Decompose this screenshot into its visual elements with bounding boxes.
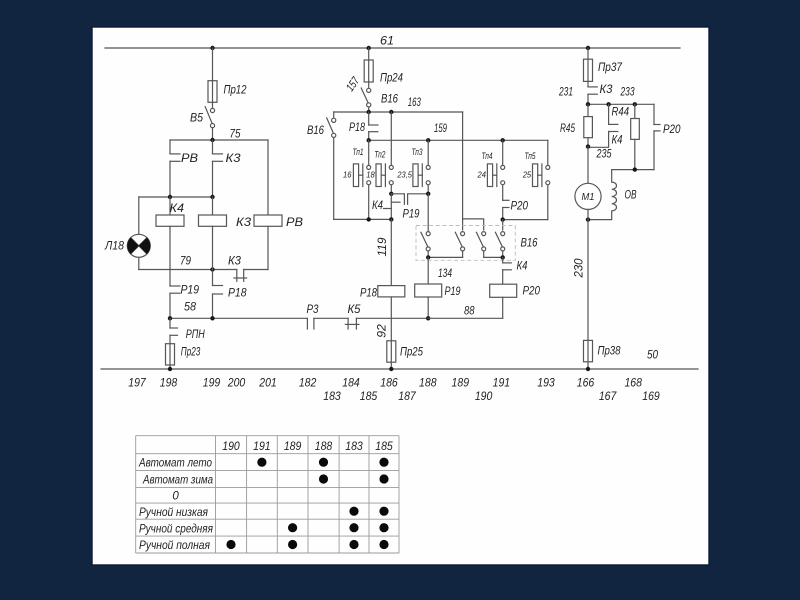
- wire node 119: [375, 219, 392, 285]
- thermal contact Тп1 value 16: [343, 140, 371, 219]
- svg-text:182: 182: [299, 376, 317, 390]
- junction 159c: [501, 138, 505, 142]
- contact К4 right-mid: [503, 257, 528, 284]
- node 61 label: [380, 34, 394, 48]
- svg-text:200: 200: [227, 376, 246, 390]
- svg-text:РВ: РВ: [181, 151, 198, 165]
- svg-text:92: 92: [375, 324, 389, 338]
- wire К3 coil bottom: [212, 226, 214, 269]
- table row labels: [138, 458, 213, 552]
- junction node 235: [586, 144, 590, 148]
- svg-text:К3: К3: [236, 215, 251, 229]
- svg-text:Тп2: Тп2: [374, 150, 385, 161]
- svg-text:186: 186: [380, 376, 398, 390]
- svg-text:К3: К3: [228, 254, 241, 268]
- svg-text:К5: К5: [348, 302, 361, 316]
- wire node 79 lower: [139, 254, 237, 270]
- svg-text:183: 183: [323, 389, 341, 403]
- wire node 134: [428, 257, 452, 284]
- wire node 233: [588, 103, 654, 105]
- svg-text:R45: R45: [560, 121, 575, 135]
- thermal contact Тп2 value 18: [366, 112, 393, 194]
- table dots row Ручной полная: [226, 540, 388, 549]
- svg-text:199: 199: [203, 376, 221, 390]
- coil К3: [199, 197, 252, 229]
- svg-text:Р3: Р3: [307, 302, 319, 316]
- svg-text:61: 61: [380, 34, 394, 48]
- table grid: [136, 436, 399, 553]
- wire РВ coil bottom: [267, 226, 269, 269]
- svg-text:Ручной низкая: Ручной низкая: [139, 507, 208, 519]
- svg-text:Автомат зима: Автомат зима: [142, 474, 213, 486]
- switch SW1: [421, 194, 430, 258]
- contact К3 right: [588, 81, 613, 104]
- svg-text:169: 169: [642, 389, 660, 403]
- wire left to К4 bottom: [334, 218, 392, 220]
- svg-text:79: 79: [180, 254, 191, 268]
- wire 163 branch down: [463, 112, 484, 230]
- contact Р19: [170, 226, 199, 318]
- svg-text:В16: В16: [521, 236, 538, 250]
- junction 233c: [633, 102, 637, 106]
- svg-text:167: 167: [599, 389, 618, 403]
- coil Р20: [490, 284, 541, 298]
- junction 159b: [426, 138, 430, 142]
- junction 58b: [210, 316, 214, 320]
- svg-text:Тп4: Тп4: [482, 151, 493, 162]
- svg-text:184: 184: [342, 376, 360, 390]
- bottom bus wire labels row 1: [128, 376, 642, 390]
- wire node 58: [170, 317, 307, 319]
- svg-text:119: 119: [375, 237, 389, 256]
- switch SW2: [455, 232, 464, 258]
- node 157 label: [344, 75, 362, 94]
- svg-text:Р18: Р18: [349, 120, 365, 134]
- junction top bus at Пр24: [367, 46, 371, 50]
- svg-text:К3: К3: [600, 82, 613, 96]
- junction 163a: [367, 110, 371, 114]
- switch B5: [190, 102, 215, 140]
- junction SW1 bottom: [426, 255, 430, 259]
- junction top bus at Пр37: [586, 46, 590, 50]
- wire 235 to motor: [587, 147, 589, 184]
- wire bus to fuse Пр37: [587, 48, 589, 59]
- table dots row Ручной средняя: [288, 523, 389, 532]
- thermal contact Тп4 value 24: [477, 140, 505, 186]
- svg-text:К3: К3: [226, 151, 241, 165]
- contact Р18 middle: [349, 112, 378, 140]
- svg-text:235: 235: [596, 147, 612, 161]
- coil Р19: [415, 284, 461, 298]
- junction M1 bottom: [586, 217, 590, 221]
- svg-text:190: 190: [475, 389, 493, 403]
- junction Тп2 bottom: [389, 192, 393, 196]
- svg-text:230: 230: [572, 258, 586, 278]
- svg-text:189: 189: [452, 376, 470, 390]
- wire Тп5 bottom link: [503, 219, 548, 221]
- junction bottom Пр38: [586, 367, 590, 371]
- node 75 wire: [170, 126, 268, 140]
- junction Тп3 bottom: [426, 192, 430, 196]
- table header row: [222, 439, 393, 453]
- svg-text:50: 50: [647, 348, 658, 362]
- svg-text:Р20: Р20: [663, 122, 681, 136]
- junction Тп4 bottom: [501, 217, 505, 221]
- svg-text:М1: М1: [582, 192, 595, 203]
- svg-text:185: 185: [360, 389, 378, 403]
- table dots row Автомат лето: [257, 458, 388, 467]
- svg-text:Р19: Р19: [445, 284, 461, 298]
- svg-text:190: 190: [222, 439, 240, 453]
- resistor R44: [612, 104, 640, 169]
- junction Тп1 bottom: [367, 217, 371, 221]
- junction R44 bottom: [633, 167, 637, 171]
- junction 233b: [606, 102, 610, 106]
- resistor R45: [560, 104, 592, 146]
- svg-text:Р19: Р19: [181, 282, 200, 296]
- wire SW3-SW4 bottoms: [484, 256, 503, 258]
- fuse Пр37: [584, 59, 624, 81]
- wire node 163: [334, 95, 463, 112]
- svg-text:Пр24: Пр24: [380, 71, 403, 85]
- field winding ОВ: [588, 170, 637, 220]
- wire node 88: [428, 297, 503, 318]
- contact Р20 middle: [503, 185, 529, 220]
- contact К3: [213, 140, 241, 197]
- svg-text:134: 134: [438, 266, 452, 280]
- junction bottom Пр23: [168, 367, 172, 371]
- svg-text:Автомат лето: Автомат лето: [138, 458, 212, 470]
- svg-text:168: 168: [624, 376, 642, 390]
- svg-text:201: 201: [258, 376, 276, 390]
- contact Р20 right: [654, 104, 681, 169]
- svg-text:Р18: Р18: [360, 286, 377, 300]
- svg-text:75: 75: [230, 126, 241, 140]
- svg-text:РВ: РВ: [286, 215, 303, 229]
- junction node 75: [210, 138, 214, 142]
- node 50 label: [647, 348, 658, 362]
- svg-text:ОВ: ОВ: [625, 188, 637, 202]
- svg-text:Тп3: Тп3: [412, 147, 423, 158]
- svg-text:В16: В16: [307, 123, 324, 137]
- fuse Пр38: [584, 340, 621, 369]
- lamp Л18: [104, 197, 150, 270]
- svg-text:188: 188: [315, 439, 333, 453]
- svg-text:К4: К4: [170, 201, 185, 215]
- page: [92, 27, 709, 565]
- svg-text:Пр23: Пр23: [181, 345, 201, 359]
- dashed selector box: [416, 226, 515, 261]
- wire ОВ top link: [612, 169, 654, 171]
- svg-text:187: 187: [398, 389, 417, 403]
- svg-text:88: 88: [464, 304, 475, 318]
- svg-text:Л18: Л18: [104, 239, 124, 253]
- junction 79a: [168, 195, 172, 199]
- svg-text:В16: В16: [381, 92, 398, 106]
- fuse Пр23: [166, 344, 201, 369]
- switch В16 main: [361, 82, 398, 112]
- svg-text:Ручной средняя: Ручной средняя: [139, 524, 213, 536]
- junction top bus at Пр12: [210, 46, 214, 50]
- fuse Пр25: [387, 341, 423, 369]
- junction 79b: [210, 195, 214, 199]
- wire node 92: [375, 297, 392, 341]
- svg-text:189: 189: [284, 439, 302, 453]
- svg-text:Тп5: Тп5: [525, 151, 536, 162]
- svg-text:R44: R44: [612, 105, 630, 119]
- svg-text:В5: В5: [190, 111, 203, 125]
- svg-text:К4: К4: [612, 133, 623, 147]
- junction node 119 top: [389, 217, 393, 221]
- contact К4 right: [588, 104, 623, 147]
- svg-text:185: 185: [375, 439, 393, 453]
- thermal contact Тп3 value 23,5: [397, 140, 431, 194]
- svg-text:191: 191: [493, 376, 511, 390]
- svg-text:188: 188: [419, 376, 437, 390]
- svg-text:РПН: РПН: [186, 327, 205, 341]
- coil РВ: [254, 140, 303, 229]
- svg-text:16: 16: [343, 170, 352, 180]
- svg-text:К4: К4: [372, 198, 383, 212]
- wire node 230: [572, 210, 589, 341]
- svg-text:Р18: Р18: [228, 286, 247, 300]
- svg-text:198: 198: [160, 376, 178, 390]
- svg-text:23,5: 23,5: [397, 170, 413, 180]
- svg-text:159: 159: [434, 121, 447, 135]
- wire bottom bus: [101, 368, 698, 370]
- contact Р19 middle: [403, 194, 429, 221]
- svg-text:233: 233: [620, 85, 635, 99]
- node 235 label: [596, 147, 612, 161]
- svg-text:163: 163: [408, 95, 421, 109]
- wire bus to fuse Пр24: [368, 48, 370, 60]
- table dots row Ручной низкая: [349, 507, 388, 516]
- wire node 159: [369, 121, 548, 140]
- wire top bus 61: [105, 47, 680, 49]
- svg-text:Р19: Р19: [403, 207, 420, 221]
- svg-text:Тп1: Тп1: [353, 147, 364, 158]
- thermal contact Тп5 value 25: [522, 140, 550, 219]
- svg-text:Пр38: Пр38: [598, 344, 621, 358]
- svg-text:58: 58: [184, 300, 196, 314]
- wire Тп4 node to switch: [502, 220, 504, 230]
- coil Р18: [360, 286, 405, 300]
- bottom bus wire labels row 2: [323, 389, 660, 403]
- contact К5: [345, 302, 428, 329]
- svg-text:К4: К4: [517, 258, 528, 272]
- svg-text:Пр37: Пр37: [598, 60, 623, 74]
- junction 159a: [367, 138, 371, 142]
- wire node 79 upper: [139, 196, 213, 198]
- junction 58c: [426, 316, 430, 320]
- contact К3 bridging: [228, 254, 268, 282]
- svg-text:183: 183: [345, 439, 363, 453]
- junction SW4 bottom: [501, 255, 505, 259]
- switch SW3: [476, 232, 485, 258]
- svg-text:Р20: Р20: [511, 199, 529, 213]
- svg-text:231: 231: [558, 85, 573, 99]
- svg-text:Р20: Р20: [523, 284, 541, 298]
- contact РВ: [170, 140, 198, 197]
- wire SW1-SW2 bottoms: [428, 256, 462, 258]
- junction 79c: [210, 267, 214, 271]
- svg-text:197: 197: [128, 376, 147, 390]
- svg-text:18: 18: [366, 170, 375, 180]
- junction 233a: [586, 102, 590, 106]
- wire bus to fuse Пр12: [212, 48, 214, 81]
- node 233 label: [620, 85, 635, 99]
- svg-text:25: 25: [522, 170, 532, 180]
- svg-text:Пр25: Пр25: [400, 345, 423, 359]
- svg-text:24: 24: [477, 170, 487, 180]
- svg-text:166: 166: [577, 376, 595, 390]
- svg-text:0: 0: [172, 491, 179, 503]
- svg-text:Пр12: Пр12: [224, 82, 247, 96]
- table dots row Автомат зима: [319, 474, 389, 483]
- switch В16 left: [307, 112, 336, 219]
- junction 163b: [389, 110, 393, 114]
- junction bottom Пр25: [389, 367, 393, 371]
- contact Р3: [307, 302, 349, 329]
- contact Р18: [213, 270, 247, 319]
- svg-text:Ручной полная: Ручной полная: [139, 540, 210, 552]
- contact РПН: [170, 318, 205, 343]
- wire Р19 coil bottom: [427, 297, 429, 318]
- coil К4: [156, 197, 184, 226]
- svg-text:191: 191: [253, 439, 271, 453]
- selector switch group В16 label: [521, 236, 538, 250]
- svg-text:193: 193: [537, 376, 555, 390]
- fuse Пр24: [364, 60, 403, 85]
- motor M1: [575, 183, 601, 209]
- node 58 label: [184, 300, 196, 314]
- junction 58a: [168, 316, 172, 320]
- node 231 label: [558, 85, 573, 99]
- switch SW4: [495, 232, 504, 258]
- fuse Пр12: [208, 81, 247, 103]
- contact К4 middle: [372, 194, 404, 220]
